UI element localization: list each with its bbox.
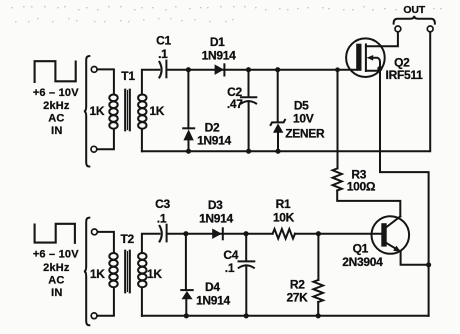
svg-text:2N3904: 2N3904 — [342, 255, 383, 269]
diode D1 — [215, 64, 225, 75]
wire T2 secondary top — [142, 234, 160, 253]
terminal (T2 primary top) — [92, 229, 98, 235]
svg-text:1K: 1K — [90, 104, 105, 118]
svg-text:T1: T1 — [121, 69, 135, 83]
node C2 top — [246, 67, 251, 72]
transformer T2 primary winding — [109, 253, 117, 287]
svg-text:10K: 10K — [273, 211, 295, 225]
wire top rail (C1 to gate) — [167, 69, 356, 71]
capacitor C1 — [159, 61, 166, 78]
node C4 top — [243, 231, 248, 236]
wire T1 primary top — [97, 69, 114, 94]
svg-text:Q1: Q1 — [353, 241, 369, 255]
terminal OUT right — [427, 26, 433, 32]
svg-text:1K: 1K — [147, 267, 162, 281]
node D4 bottom — [184, 313, 189, 318]
node D5 bottom — [275, 149, 280, 154]
mosfet Q2 — [346, 32, 398, 77]
terminal (T1 primary top) — [91, 67, 97, 73]
terminal OUT left — [395, 26, 401, 32]
wire lower top rail — [168, 233, 273, 235]
node R2 top — [316, 231, 321, 236]
wire bottom rail of lower circuit — [142, 315, 429, 317]
svg-text:1N914: 1N914 — [196, 294, 230, 308]
label +6-10V 2kHz AC IN (bottom) — [33, 249, 79, 299]
brace (bottom input) — [84, 218, 89, 326]
node after C1 — [186, 67, 191, 72]
node C4 bottom — [244, 313, 249, 318]
svg-text:10V: 10V — [293, 111, 314, 125]
svg-text:D3: D3 — [208, 198, 223, 212]
node D5 top — [275, 67, 280, 72]
brace (top input) — [84, 56, 89, 167]
transformer T2 core — [125, 251, 130, 293]
wire T1 primary bottom — [97, 130, 114, 149]
svg-text:+6 – 10V: +6 – 10V — [33, 87, 79, 99]
transformer T1 primary winding — [109, 95, 117, 129]
svg-text:+6 – 10V: +6 – 10V — [33, 249, 79, 261]
svg-text:C1: C1 — [156, 34, 171, 48]
wire Q1 emitter — [401, 252, 429, 265]
svg-text:R1: R1 — [276, 197, 291, 211]
wire T2 secondary bottom — [141, 288, 143, 316]
svg-text:1K: 1K — [90, 267, 105, 281]
svg-text:D5: D5 — [294, 98, 309, 112]
square wave symbol (top AC source) — [35, 61, 76, 82]
svg-text:1N914: 1N914 — [202, 48, 236, 62]
wire T2 primary bottom — [97, 288, 114, 316]
transformer T1 core — [125, 90, 130, 131]
svg-text:.1: .1 — [225, 261, 235, 275]
capacitor C3 — [160, 225, 167, 242]
svg-text:T2: T2 — [120, 232, 134, 246]
svg-text:IN: IN — [51, 287, 62, 299]
wire Q2 source down and over — [380, 69, 429, 316]
svg-text:AC: AC — [48, 274, 64, 286]
svg-text:1K: 1K — [149, 104, 164, 118]
transformer T2 secondary winding — [138, 253, 146, 287]
wire T1 secondary top — [142, 70, 159, 95]
svg-text:OUT: OUT — [403, 4, 425, 16]
svg-text:2kHz: 2kHz — [43, 262, 70, 274]
node D4 top — [183, 231, 188, 236]
transformer T1 secondary winding — [138, 95, 146, 129]
node emitter junction — [426, 262, 431, 267]
svg-text:2kHz: 2kHz — [43, 100, 70, 112]
diode D2 — [183, 70, 194, 152]
svg-text:ZENER: ZENER — [285, 127, 325, 141]
diode D3 — [212, 228, 223, 239]
capacitor C4 — [239, 234, 255, 316]
node C2 bottom — [246, 149, 251, 154]
wire bottom rail of top circuit — [142, 32, 430, 151]
terminal (T1 primary bottom) — [91, 146, 97, 152]
svg-text:IN: IN — [51, 125, 62, 137]
svg-text:1N914: 1N914 — [199, 211, 233, 225]
diode D4 — [181, 234, 192, 316]
node R2 bottom — [316, 313, 321, 318]
transistor Q1 — [372, 216, 410, 254]
svg-text:D1: D1 — [210, 35, 225, 49]
svg-text:.47: .47 — [227, 97, 243, 111]
zener diode D5 — [271, 70, 285, 152]
node D2 bottom — [186, 149, 191, 154]
svg-text:.1: .1 — [157, 211, 167, 225]
square wave symbol (bottom AC source) — [35, 224, 75, 243]
brace OUT — [394, 16, 435, 24]
svg-text:.1: .1 — [158, 47, 168, 61]
capacitor C2 — [241, 70, 256, 152]
terminal (T2 primary bottom) — [91, 313, 97, 319]
svg-text:R2: R2 — [290, 277, 305, 291]
svg-text:C3: C3 — [155, 197, 170, 211]
node gate/R3 — [335, 67, 340, 72]
wire T1 secondary bottom — [141, 130, 143, 151]
label +6-10V 2kHz AC IN (top) — [33, 87, 79, 137]
svg-text:IRF511: IRF511 — [386, 68, 424, 82]
svg-text:27K: 27K — [286, 291, 308, 305]
wire T2 primary top — [98, 232, 114, 253]
svg-text:AC: AC — [48, 112, 64, 124]
svg-text:1N914: 1N914 — [197, 134, 231, 148]
resistor R2 — [313, 234, 323, 316]
resistor R3 — [333, 70, 401, 217]
resistor R1 — [273, 229, 295, 239]
svg-text:D4: D4 — [205, 280, 220, 294]
svg-text:100Ω: 100Ω — [347, 180, 376, 194]
